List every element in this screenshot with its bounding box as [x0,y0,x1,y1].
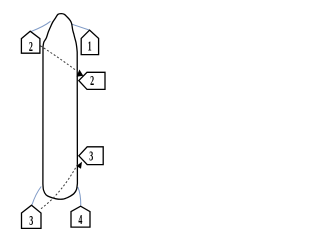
hull outline [43,14,78,200]
arrowhead top (on hull right edge) [76,70,83,77]
wire: blue leader line bottom-left [32,187,41,205]
wire: dashed connector from tag 2 to hull right edge [40,46,77,72]
wire: blue leader line top-right [71,24,90,30]
tag 3 (bottom-left pentagon) [22,205,42,228]
wire: blue leader line top-left [30,21,50,32]
arrowhead bottom (on hull right edge) [76,162,82,169]
svg-text:1: 1 [88,40,92,55]
svg-text:3: 3 [29,214,33,229]
svg-text:3: 3 [89,149,93,164]
svg-text:2: 2 [90,74,94,89]
tag 4 (bottom-right pentagon) [71,206,90,227]
flag 2 (right side pointer label) [79,72,105,89]
svg-text:2: 2 [29,40,33,55]
flag 3 (right side pointer label) [79,147,103,165]
wire: dashed connector from tag 3 to hull right edge [41,164,78,209]
svg-text:4: 4 [78,213,82,228]
wire: blue leader line bottom-right [78,187,81,206]
tag 2 (top-left pentagon) [21,31,40,53]
tag 1 (top-right pentagon) [81,30,98,54]
